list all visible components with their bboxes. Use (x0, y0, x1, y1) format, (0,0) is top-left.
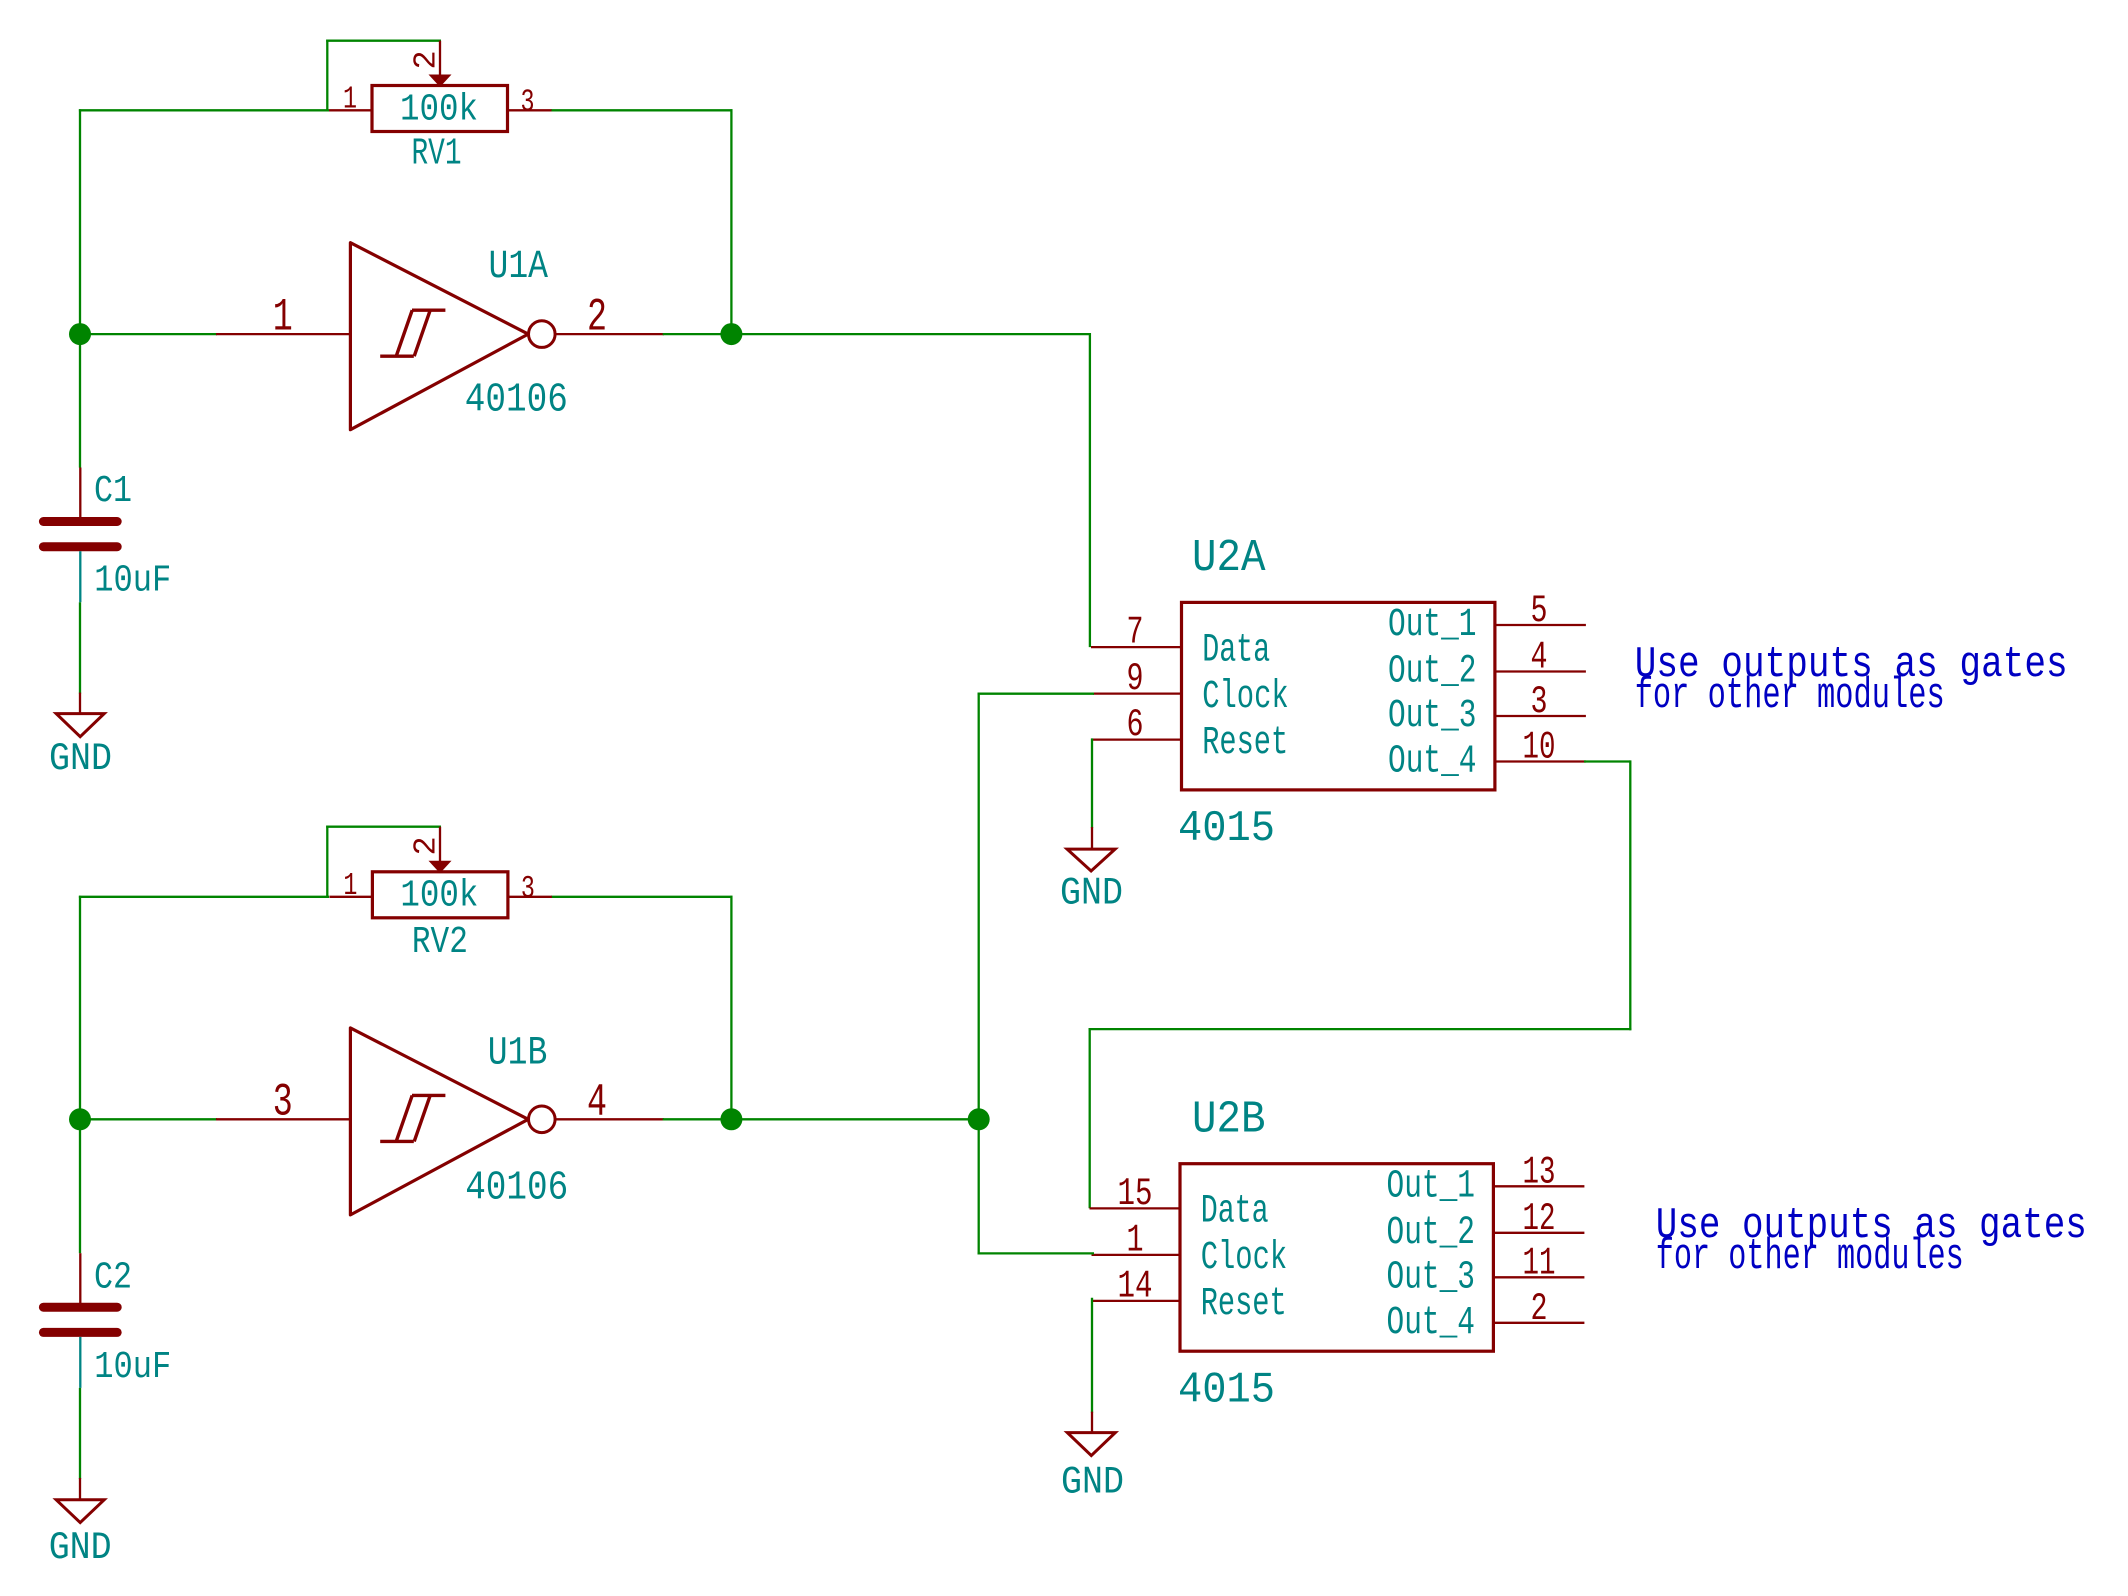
RV2 pin 1 (329, 896, 372, 898)
wire: U2B Reset to GND (1091, 1298, 1093, 1413)
svg-text:100k: 100k (400, 89, 478, 132)
U1B hysteresis symbol (380, 1095, 445, 1141)
svg-text:12: 12 (1523, 1197, 1556, 1241)
svg-text:Out_1: Out_1 (1388, 602, 1477, 647)
wire: U1B output junction to clock rail junction (730, 1118, 980, 1120)
RV1 wiper pin 2 stem and arrow (439, 41, 441, 77)
wire: right loop vertical down to U1B output node (730, 896, 732, 1121)
wire: Out_4 loop left vertical down to U2B Data (1089, 1028, 1091, 1208)
wire: U1B output to RV2 junction (663, 1118, 733, 1120)
svg-text:5: 5 (1531, 589, 1548, 633)
svg-text:2: 2 (587, 290, 607, 343)
junction: node B (RV2/C2/U1B input) (69, 1108, 91, 1130)
capacitor C2 plates (43, 1307, 117, 1332)
capacitor C1 plates (43, 522, 117, 547)
svg-text:Out_2: Out_2 (1388, 649, 1477, 694)
wire: U2A Reset to GND (1091, 738, 1093, 828)
svg-text:Out_4: Out_4 (1387, 1300, 1476, 1345)
C1 bottom pin (79, 551, 81, 602)
svg-text:2: 2 (408, 50, 445, 69)
wire: U1A output junction to U2A corner (730, 333, 1091, 335)
svg-text:Clock: Clock (1202, 674, 1289, 719)
wire: node B down to C2 (79, 1118, 81, 1253)
wire: C1 bottom to GND (79, 602, 81, 693)
wire: RV1 wiper loop top horizontal (326, 40, 441, 42)
junction: U1B output / RV2 pin3 (720, 1108, 742, 1130)
U2B Out_4 pin line (1493, 1322, 1584, 1324)
svg-text:2: 2 (408, 836, 445, 855)
U2A Out_4 pin line (1495, 760, 1586, 762)
U1A input pin 1 (216, 333, 350, 335)
svg-text:4: 4 (1531, 636, 1548, 680)
C2 ground pin red segment (79, 1478, 81, 1499)
svg-text:Out_1: Out_1 (1387, 1163, 1476, 1208)
svg-text:GND: GND (1060, 872, 1123, 916)
wire: left rail top corner to RV1 pin 1 (79, 109, 329, 111)
svg-text:Out_3: Out_3 (1388, 693, 1477, 738)
U2A Data pin line (1091, 646, 1182, 648)
svg-text:Out_3: Out_3 (1387, 1254, 1476, 1299)
U1A output pin 2 (555, 333, 664, 335)
potentiometer RV2 body (372, 872, 508, 918)
svg-text:9: 9 (1127, 657, 1144, 701)
wire: node A to U1A input pin (79, 333, 217, 335)
svg-text:C2: C2 (94, 1256, 132, 1300)
wire: vertical down to U2A Data pin (1089, 333, 1091, 647)
svg-text:14: 14 (1118, 1265, 1153, 1309)
wire: right loop vertical down to U1A output node (730, 109, 732, 335)
svg-text:4: 4 (587, 1076, 607, 1129)
svg-text:10uF: 10uF (94, 1346, 171, 1389)
svg-text:1: 1 (273, 291, 293, 344)
U1B output inversion bubble (529, 1106, 556, 1133)
U2B Data pin line (1090, 1207, 1181, 1209)
svg-text:for other modules: for other modules (1635, 672, 1945, 721)
wire: left rail corner to RV2 pin 1 (79, 896, 329, 898)
wire: U2A Out_4 stub (1584, 760, 1630, 762)
wire: Out_4 loop horizontal (1089, 1028, 1632, 1030)
C2 bottom pin (79, 1337, 81, 1388)
svg-text:Data: Data (1201, 1189, 1269, 1234)
C2 top pin (79, 1253, 81, 1303)
svg-text:U2A: U2A (1192, 532, 1266, 584)
U2B Out_2 pin line (1493, 1232, 1584, 1234)
ground symbol below U2A reset (1067, 849, 1115, 871)
ground symbol below C1 (56, 714, 104, 737)
potentiometer RV1 body (372, 86, 508, 132)
svg-text:4015: 4015 (1178, 804, 1275, 854)
U2A ground pin red segment (1091, 827, 1093, 848)
U2A Out_1 pin line (1495, 624, 1586, 626)
svg-text:10: 10 (1523, 726, 1556, 770)
U2B Out_3 pin line (1493, 1276, 1584, 1278)
wire: RV2 pin 3 to right loop corner (551, 896, 733, 898)
wire: Out_4 loop right vertical (1629, 760, 1631, 1030)
RV2 pin 3 (508, 896, 552, 898)
junction: clock rail tap at U1B output (968, 1108, 990, 1130)
wire: C2 bottom to GND (79, 1388, 81, 1479)
svg-text:40106: 40106 (465, 377, 568, 423)
ground symbol below C2 (56, 1500, 104, 1523)
svg-text:100k: 100k (400, 874, 478, 917)
shift register U2B (4015) body (1180, 1164, 1493, 1352)
wire: left rail vertical (RV2 down to U1B input node) (79, 896, 81, 1121)
svg-text:for other modules: for other modules (1656, 1233, 1964, 1282)
svg-text:Reset: Reset (1202, 720, 1288, 765)
wire: clock rail to U2B Clock pin (978, 1252, 1094, 1254)
U2B Clock pin line (1092, 1254, 1181, 1256)
svg-text:U1B: U1B (488, 1031, 548, 1076)
U2A Out_2 pin line (1495, 670, 1586, 672)
U1B input pin 3 (216, 1118, 350, 1120)
U1A hysteresis symbol (380, 310, 445, 356)
wire: U1A output to right loop junction (663, 333, 733, 335)
svg-text:U2B: U2B (1192, 1093, 1266, 1145)
wire: left rail vertical (RV1 pin1 down to U1A input node) (79, 109, 81, 335)
U2B Reset pin line (1092, 1300, 1181, 1302)
wire: node A down to C1 (79, 333, 81, 468)
U1B output pin 4 (555, 1118, 664, 1120)
svg-text:1: 1 (343, 81, 357, 118)
svg-text:GND: GND (49, 737, 112, 781)
svg-text:Out_2: Out_2 (1387, 1210, 1476, 1255)
svg-text:3: 3 (521, 84, 535, 121)
svg-text:Clock: Clock (1201, 1235, 1288, 1280)
svg-text:Out_4: Out_4 (1388, 739, 1477, 784)
svg-text:RV2: RV2 (412, 921, 468, 964)
junction: node A (RV1/C1/U1A input) (69, 323, 91, 345)
svg-text:11: 11 (1523, 1241, 1556, 1285)
svg-text:1: 1 (343, 867, 357, 904)
svg-text:2: 2 (1531, 1287, 1548, 1331)
svg-text:GND: GND (49, 1526, 112, 1570)
svg-text:6: 6 (1127, 703, 1144, 747)
svg-text:Reset: Reset (1201, 1281, 1287, 1326)
svg-text:GND: GND (1061, 1460, 1124, 1504)
RV1 pin 1 (329, 109, 372, 111)
C1 ground pin red segment (79, 693, 81, 713)
U2B Out_1 pin line (1493, 1185, 1584, 1187)
wire: RV1 pin 3 to right loop corner (551, 109, 733, 111)
svg-text:40106: 40106 (465, 1165, 568, 1211)
svg-text:3: 3 (273, 1076, 293, 1129)
svg-text:7: 7 (1127, 611, 1144, 655)
RV1 pin 3 (508, 109, 552, 111)
svg-text:1: 1 (1127, 1219, 1144, 1263)
svg-text:15: 15 (1118, 1172, 1153, 1216)
ground symbol below U2B reset (1067, 1433, 1115, 1456)
svg-text:4015: 4015 (1178, 1365, 1275, 1415)
svg-text:3: 3 (521, 870, 535, 907)
Schmitt inverter U1A (40106) triangle body (350, 243, 528, 430)
wire: RV1 wiper loop left vertical (326, 40, 328, 112)
svg-text:U1A: U1A (489, 244, 549, 289)
U2B ground pin red segment (1091, 1412, 1093, 1433)
U2A Out_3 pin line (1495, 715, 1586, 717)
svg-text:Data: Data (1202, 627, 1270, 672)
RV2 wiper pin 2 stem and arrow (439, 827, 441, 863)
wire: clock rail vertical (U1B output up to U2A clock) (978, 693, 980, 1255)
U2A Reset pin line (1093, 738, 1182, 740)
U2A Clock pin line (1093, 692, 1182, 694)
junction: U1A output / RV1 pin3 / to U2A (720, 323, 742, 345)
Schmitt inverter U1B (40106) triangle body (350, 1028, 528, 1215)
svg-text:3: 3 (1531, 680, 1548, 724)
shift register U2A (4015) body (1182, 602, 1495, 790)
svg-text:13: 13 (1523, 1150, 1556, 1194)
wire: node B to U1B input pin (79, 1118, 217, 1120)
U1A output inversion bubble (529, 321, 556, 348)
svg-text:C1: C1 (94, 469, 132, 513)
svg-text:10uF: 10uF (94, 559, 171, 602)
C1 top pin (79, 468, 81, 518)
wire: RV2 wiper loop left vertical (326, 826, 328, 898)
wire: RV2 wiper loop top horizontal (326, 826, 441, 828)
wire: clock rail to U2A Clock pin (978, 693, 1094, 695)
svg-text:RV1: RV1 (412, 133, 462, 176)
